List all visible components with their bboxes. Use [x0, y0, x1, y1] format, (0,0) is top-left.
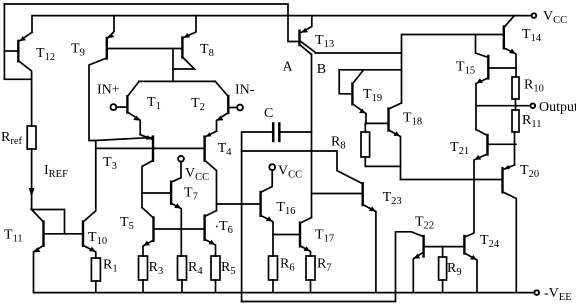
svg-text:VCC: VCC: [185, 166, 209, 183]
wire: node down to lower detour: [241, 133, 243, 302]
transistor T6: [205, 211, 233, 257]
transistor T13 dual collector: [300, 16, 335, 55]
transistor T4: [205, 131, 233, 210]
transistor T14: [504, 16, 542, 77]
transistor T15: [456, 35, 516, 130]
wire: collector A line: [316, 52, 402, 54]
transistor T16: [261, 170, 296, 256]
svg-text:T16: T16: [276, 200, 295, 217]
wire: left edge T12 base/collector loop: [4, 4, 31, 79]
svg-text:A: A: [283, 60, 294, 75]
svg-text:IREF: IREF: [44, 163, 68, 180]
transistor T18: [389, 103, 423, 180]
resistor R8: [331, 123, 401, 166]
svg-text:R5: R5: [221, 260, 236, 277]
wire: second stage input node (T4/T6 collectors to T16 base): [217, 203, 261, 205]
transistor T3: [103, 135, 153, 208]
svg-text:T15: T15: [456, 60, 475, 77]
svg-text:VCC: VCC: [543, 9, 567, 26]
transistor T19: [339, 70, 382, 124]
resistor R7: [306, 256, 332, 293]
resistor R10: [512, 77, 544, 110]
wire: lower detour to T22 collector: [242, 233, 396, 301]
resistor R1: [91, 258, 117, 293]
svg-text:T1: T1: [147, 95, 161, 112]
transistor T23: [242, 151, 402, 293]
transistor T10: [83, 141, 107, 259]
transistor T11: [4, 210, 83, 293]
wire: T16 emitter to T17 base: [273, 234, 300, 236]
svg-text:T24: T24: [480, 233, 500, 250]
resistor R9: [439, 247, 462, 293]
svg-text:R9: R9: [447, 261, 462, 278]
svg-text:T14: T14: [522, 27, 542, 44]
transistor T20: [503, 132, 540, 293]
Vcc terminal top right: [532, 13, 537, 18]
Vcc terminal above T7: [178, 156, 184, 162]
svg-text:T23: T23: [383, 190, 402, 207]
svg-text:T8: T8: [200, 42, 214, 59]
wire: T3/T4 base rail from T9/T10 node: [96, 147, 205, 149]
transistor T9: [71, 16, 182, 141]
wire: A node vertical to T14 base: [402, 35, 504, 104]
wire: bottom VEE rail: [34, 292, 535, 294]
svg-text:T6: T6: [219, 219, 233, 236]
svg-text:T5: T5: [120, 215, 134, 232]
svg-text:T7: T7: [184, 186, 198, 203]
svg-text:T19: T19: [363, 87, 382, 104]
Output terminal: [531, 103, 536, 108]
wire: VCC rail: [32, 16, 532, 33]
svg-text:VCC: VCC: [278, 164, 302, 181]
resistor R4: [178, 256, 204, 293]
-VEE terminal: [534, 290, 539, 295]
svg-text:R7: R7: [317, 257, 332, 274]
svg-text:IN-: IN-: [235, 83, 255, 98]
svg-text:IN+: IN+: [97, 83, 120, 98]
transistor T7: [142, 162, 198, 257]
transistor T1: [116, 81, 161, 134]
wire: collector B line: [311, 55, 313, 218]
svg-text:T13: T13: [315, 33, 334, 50]
Vcc terminal above T16: [269, 164, 275, 170]
transistor T2: [191, 81, 237, 131]
transistor T22: [396, 215, 465, 293]
svg-text:T2: T2: [191, 96, 205, 113]
resistor R3: [139, 256, 164, 293]
transistor T21: [450, 130, 516, 180]
transistor T8: [173, 16, 214, 82]
transistor T5: [120, 208, 205, 257]
svg-text:T21: T21: [450, 140, 469, 157]
svg-text:R1: R1: [103, 258, 118, 275]
transistor T24: [464, 180, 499, 293]
input terminal IN-: [237, 105, 243, 111]
resistor R11: [512, 110, 541, 132]
svg-text:R11: R11: [522, 113, 541, 130]
svg-text:T17: T17: [315, 228, 334, 245]
svg-text:T12: T12: [36, 46, 55, 63]
transistor T12: [4, 32, 55, 79]
wire: T19 emitter / R8 to T18 base: [365, 122, 388, 124]
svg-text:T4: T4: [218, 141, 233, 158]
current arrow IREF: [29, 188, 35, 197]
svg-text:T11: T11: [4, 228, 23, 245]
svg-text:Output: Output: [539, 100, 576, 115]
resistor R6: [269, 256, 295, 293]
resistor R5: [211, 256, 236, 293]
svg-text:T9: T9: [71, 42, 85, 59]
transistor T17: [300, 218, 334, 257]
svg-text:T3: T3: [103, 155, 117, 172]
svg-text:T10: T10: [88, 230, 107, 247]
capacitor C: [242, 106, 312, 141]
svg-text:T18: T18: [403, 111, 422, 128]
wire: output node: [476, 105, 531, 107]
svg-text:T20: T20: [520, 163, 539, 180]
svg-text:R8: R8: [331, 135, 346, 152]
svg-text:C: C: [264, 106, 273, 121]
svg-text:-VEE: -VEE: [544, 286, 572, 303]
svg-text:T22: T22: [415, 215, 434, 232]
wire: T20 base line: [401, 179, 503, 181]
wire: T19 top loop: [339, 69, 401, 71]
svg-text:Rref: Rref: [1, 130, 23, 147]
input terminal IN+: [111, 104, 117, 110]
wire: T9 collector link to T3: [96, 138, 152, 141]
svg-text:R10: R10: [524, 78, 544, 95]
svg-text:R3: R3: [149, 260, 164, 277]
svg-text:R4: R4: [188, 260, 203, 277]
resistor Rref: [1, 79, 36, 209]
svg-text:R6: R6: [280, 257, 295, 274]
svg-text:B: B: [317, 62, 326, 77]
wire: T1/T2 collector rail: [139, 80, 215, 82]
wire: top base rail T12 to T13: [4, 4, 298, 42]
